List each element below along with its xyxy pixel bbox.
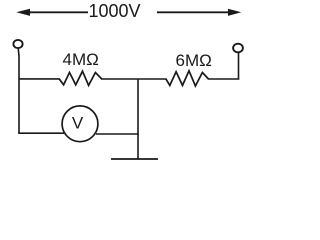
wire voltmeter right (96, 133, 139, 135)
svg-text:4MΩ: 4MΩ (63, 50, 99, 69)
wire voltmeter left (19, 132, 64, 133)
wire top left segment (19, 78, 60, 80)
dimension arrow left (16, 9, 88, 16)
resistor R1 4M (59, 71, 102, 85)
wire left vertical (17, 48, 20, 133)
wire top middle segment (101, 78, 167, 80)
ground (111, 158, 158, 160)
wire top right segment (208, 78, 239, 80)
dimension arrow right (157, 9, 241, 16)
terminal B (right, open circle) (233, 44, 243, 53)
wire right vertical (238, 52, 240, 79)
voltmeter V1 (62, 106, 98, 142)
wire middle vertical (node to ground) (137, 79, 139, 160)
svg-text:1000V: 1000V (89, 1, 141, 21)
terminal A (left, open circle) (13, 40, 22, 48)
svg-text:V: V (72, 114, 84, 133)
resistor R2 6M (166, 71, 209, 86)
svg-text:6MΩ: 6MΩ (176, 51, 212, 70)
